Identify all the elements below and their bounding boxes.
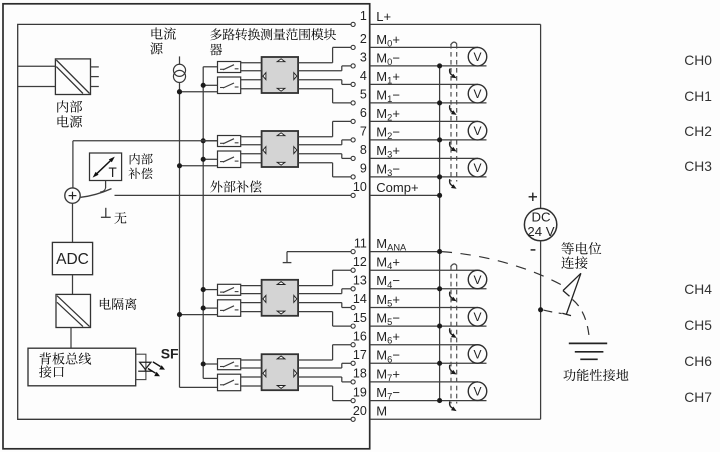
- terminal 4: [370, 83, 478, 85]
- terminal 7: [370, 139, 487, 141]
- wires switch boxes to mux U3: [241, 285, 262, 287]
- shield arrow: [450, 179, 454, 186]
- shield arrow: [450, 401, 454, 408]
- svg-text:24 V: 24 V: [527, 224, 554, 239]
- terminal 1: [370, 23, 541, 25]
- range switch S6: [218, 300, 241, 317]
- terminal 3: [370, 65, 487, 67]
- shield arrow: [450, 105, 454, 112]
- range switch S5: [218, 284, 241, 295]
- svg-text:V: V: [473, 310, 481, 324]
- mux U4 output wires to terminals: [298, 359, 333, 361]
- equipotential dashed link from M wire: [543, 310, 561, 313]
- switch input wires group 4: [203, 363, 217, 365]
- svg-text:CH5: CH5: [684, 318, 712, 333]
- voltmeter V CH3: [468, 158, 487, 177]
- junction bus / terminal 3: [437, 63, 442, 68]
- summing point circle: [65, 188, 80, 203]
- label 内部电源: [57, 100, 68, 112]
- svg-text:18: 18: [353, 367, 367, 381]
- svg-text:CH1: CH1: [684, 89, 712, 104]
- terminal 16: [370, 344, 478, 346]
- voltmeter V CH2: [468, 121, 487, 140]
- current source: [179, 56, 181, 64]
- terminal 12: [370, 269, 478, 271]
- internal power supply unit (DC converter): [55, 59, 90, 95]
- terminal 11: [370, 251, 440, 253]
- junction bus / terminal 9: [437, 174, 442, 179]
- svg-text:8: 8: [360, 143, 367, 157]
- terminal 5: [370, 102, 487, 104]
- junction bus / terminal 10: [437, 193, 442, 198]
- label 电隔离: [100, 298, 111, 310]
- svg-text:V: V: [473, 273, 481, 287]
- wire ADC to isolation: [72, 275, 74, 295]
- label 功能性接地: [563, 369, 575, 381]
- wire summing point to ADC: [72, 203, 74, 242]
- svg-text:3: 3: [360, 51, 367, 65]
- svg-text:5: 5: [360, 88, 367, 102]
- MANA reference stub: [287, 251, 351, 253]
- svg-text:T: T: [109, 165, 117, 180]
- mux U1 output wires to terminals: [298, 62, 333, 64]
- terminal 2: [370, 46, 478, 48]
- ADC: [52, 242, 92, 274]
- terminal 15: [370, 325, 487, 327]
- wire from A to group1 lower switch: [177, 89, 182, 94]
- label 外部补偿: [210, 181, 222, 193]
- range switch S2: [218, 77, 241, 94]
- svg-text:CH7: CH7: [684, 390, 712, 405]
- svg-text:V: V: [473, 87, 481, 101]
- SF LED diode: [140, 362, 151, 369]
- svg-text:7: 7: [360, 125, 367, 139]
- label 内部补偿: [130, 153, 140, 164]
- shield arrow: [450, 365, 454, 372]
- label 多路转换测量范围模块器: [210, 28, 222, 40]
- svg-text:16: 16: [353, 329, 367, 343]
- junction equipotential: [538, 307, 543, 312]
- junction bus / terminal 19: [437, 398, 442, 403]
- svg-text:ADC: ADC: [56, 251, 89, 268]
- junction bus / terminal 5: [437, 100, 442, 105]
- svg-text:SF: SF: [161, 346, 179, 362]
- shield arrow: [450, 69, 454, 76]
- svg-text:CH6: CH6: [684, 354, 712, 369]
- multiplexer / measuring-range module U4: [262, 354, 299, 390]
- multiplexer / measuring-range module U1: [262, 57, 299, 93]
- internal bus A (from current source): [179, 92, 181, 388]
- switch input wires group 3: [203, 289, 217, 291]
- svg-text:15: 15: [353, 311, 367, 325]
- svg-text:DC: DC: [531, 210, 551, 225]
- svg-text:CH4: CH4: [684, 282, 712, 297]
- svg-text:9: 9: [360, 162, 367, 176]
- voltmeter V CH4: [468, 270, 487, 289]
- terminal 8: [370, 157, 478, 159]
- wire compensation to group2 switch (long horizontal): [73, 140, 218, 142]
- range switch S1: [218, 62, 241, 73]
- junction bus / terminal 13: [437, 286, 442, 291]
- label 等电位连接: [561, 242, 573, 254]
- svg-text:13: 13: [353, 274, 367, 288]
- svg-text:CH0: CH0: [684, 53, 712, 68]
- module frame: [18, 24, 351, 419]
- multiplexer / measuring-range module U3: [262, 280, 299, 316]
- svg-text:11: 11: [354, 236, 367, 250]
- external compensation wire to Comp+: [115, 194, 352, 196]
- svg-text:6: 6: [360, 106, 367, 120]
- no-compensation contact 无: [105, 208, 107, 218]
- terminal 9: [370, 176, 487, 178]
- range switch S3: [218, 136, 241, 147]
- svg-text:1: 1: [360, 9, 367, 23]
- range switch S7: [218, 359, 241, 370]
- voltmeter V CH1: [468, 84, 487, 103]
- terminal 10: [370, 194, 440, 196]
- junction bus / terminal 15: [437, 324, 442, 329]
- svg-text:V: V: [473, 161, 481, 175]
- wires switch boxes to mux U1: [241, 62, 262, 64]
- svg-text:10: 10: [353, 180, 367, 194]
- terminal 18: [370, 381, 478, 383]
- power supply output stubs: [91, 66, 99, 68]
- svg-text:L+: L+: [376, 9, 391, 24]
- terminal 19: [370, 400, 487, 402]
- svg-text:CH2: CH2: [684, 124, 712, 139]
- backplane bus interface: [28, 348, 136, 386]
- mux U2 output wires to terminals: [298, 136, 333, 138]
- outer module boundary (front connector): [3, 4, 370, 449]
- svg-text:V: V: [473, 124, 481, 138]
- svg-text:CH3: CH3: [684, 159, 712, 174]
- shield arrow: [450, 292, 454, 299]
- svg-text:20: 20: [353, 404, 367, 418]
- mux U3 output wires to terminals: [298, 285, 333, 287]
- svg-text:17: 17: [353, 348, 367, 362]
- MANA collecting bus: [439, 66, 441, 401]
- terminal 17: [370, 362, 487, 364]
- junction bus / terminal 7: [437, 137, 442, 142]
- svg-text:V: V: [473, 50, 481, 64]
- terminal 13: [370, 288, 487, 290]
- svg-text:4: 4: [360, 69, 367, 83]
- svg-text:Comp+: Comp+: [376, 180, 418, 195]
- DC 24V source: [524, 208, 556, 240]
- dashed link to ground: [573, 300, 590, 342]
- terminal 14: [370, 307, 478, 309]
- equipotential pointer symbol: [566, 273, 581, 314]
- LED arrows: [153, 362, 161, 367]
- junction bus / terminal 17: [437, 361, 442, 366]
- range switch S4: [218, 151, 241, 168]
- voltmeter V CH6: [468, 345, 487, 364]
- wire isolation to backplane interface: [70, 328, 72, 349]
- M return wire: [540, 241, 542, 419]
- LED holder: [136, 354, 146, 379]
- label 电流源: [151, 27, 162, 39]
- functional earth ground: [569, 342, 607, 344]
- switch input wires group 2: [203, 140, 217, 142]
- shield arrow: [450, 142, 454, 149]
- voltmeter V CH7: [468, 382, 487, 401]
- svg-text:V: V: [473, 385, 481, 399]
- voltmeter V CH5: [468, 308, 487, 327]
- wires switch boxes to mux U4: [241, 359, 262, 361]
- svg-text:2: 2: [360, 32, 367, 46]
- equipotential dashed link from MANA: [442, 252, 566, 288]
- svg-text:14: 14: [353, 292, 367, 306]
- range switch S8: [218, 374, 241, 391]
- L+ feed down: [540, 24, 542, 208]
- svg-text:V: V: [473, 347, 481, 361]
- junction bus / terminal 11: [437, 249, 442, 254]
- selector blade: [81, 189, 112, 198]
- wires switch boxes to mux U2: [241, 136, 262, 138]
- shield arrow: [450, 328, 454, 335]
- multiplexer / measuring-range module U2: [262, 131, 299, 167]
- svg-text:M: M: [376, 404, 387, 419]
- svg-text:19: 19: [353, 385, 367, 399]
- T-box contact stub: [105, 181, 107, 189]
- shield cable (lower), dashed pair: [450, 266, 452, 404]
- wires to internal power supply: [18, 65, 56, 67]
- voltmeter V CH0: [468, 47, 487, 65]
- electrical isolation unit: [56, 294, 91, 327]
- svg-text:12: 12: [353, 255, 367, 269]
- switch input wires group 1: [203, 66, 217, 68]
- terminal 20: [370, 418, 541, 420]
- terminal 6: [370, 120, 478, 122]
- internal bus B: [202, 67, 204, 379]
- internal compensation sensor box T: [90, 153, 122, 181]
- shield cable (upper), dashed pair: [450, 44, 452, 182]
